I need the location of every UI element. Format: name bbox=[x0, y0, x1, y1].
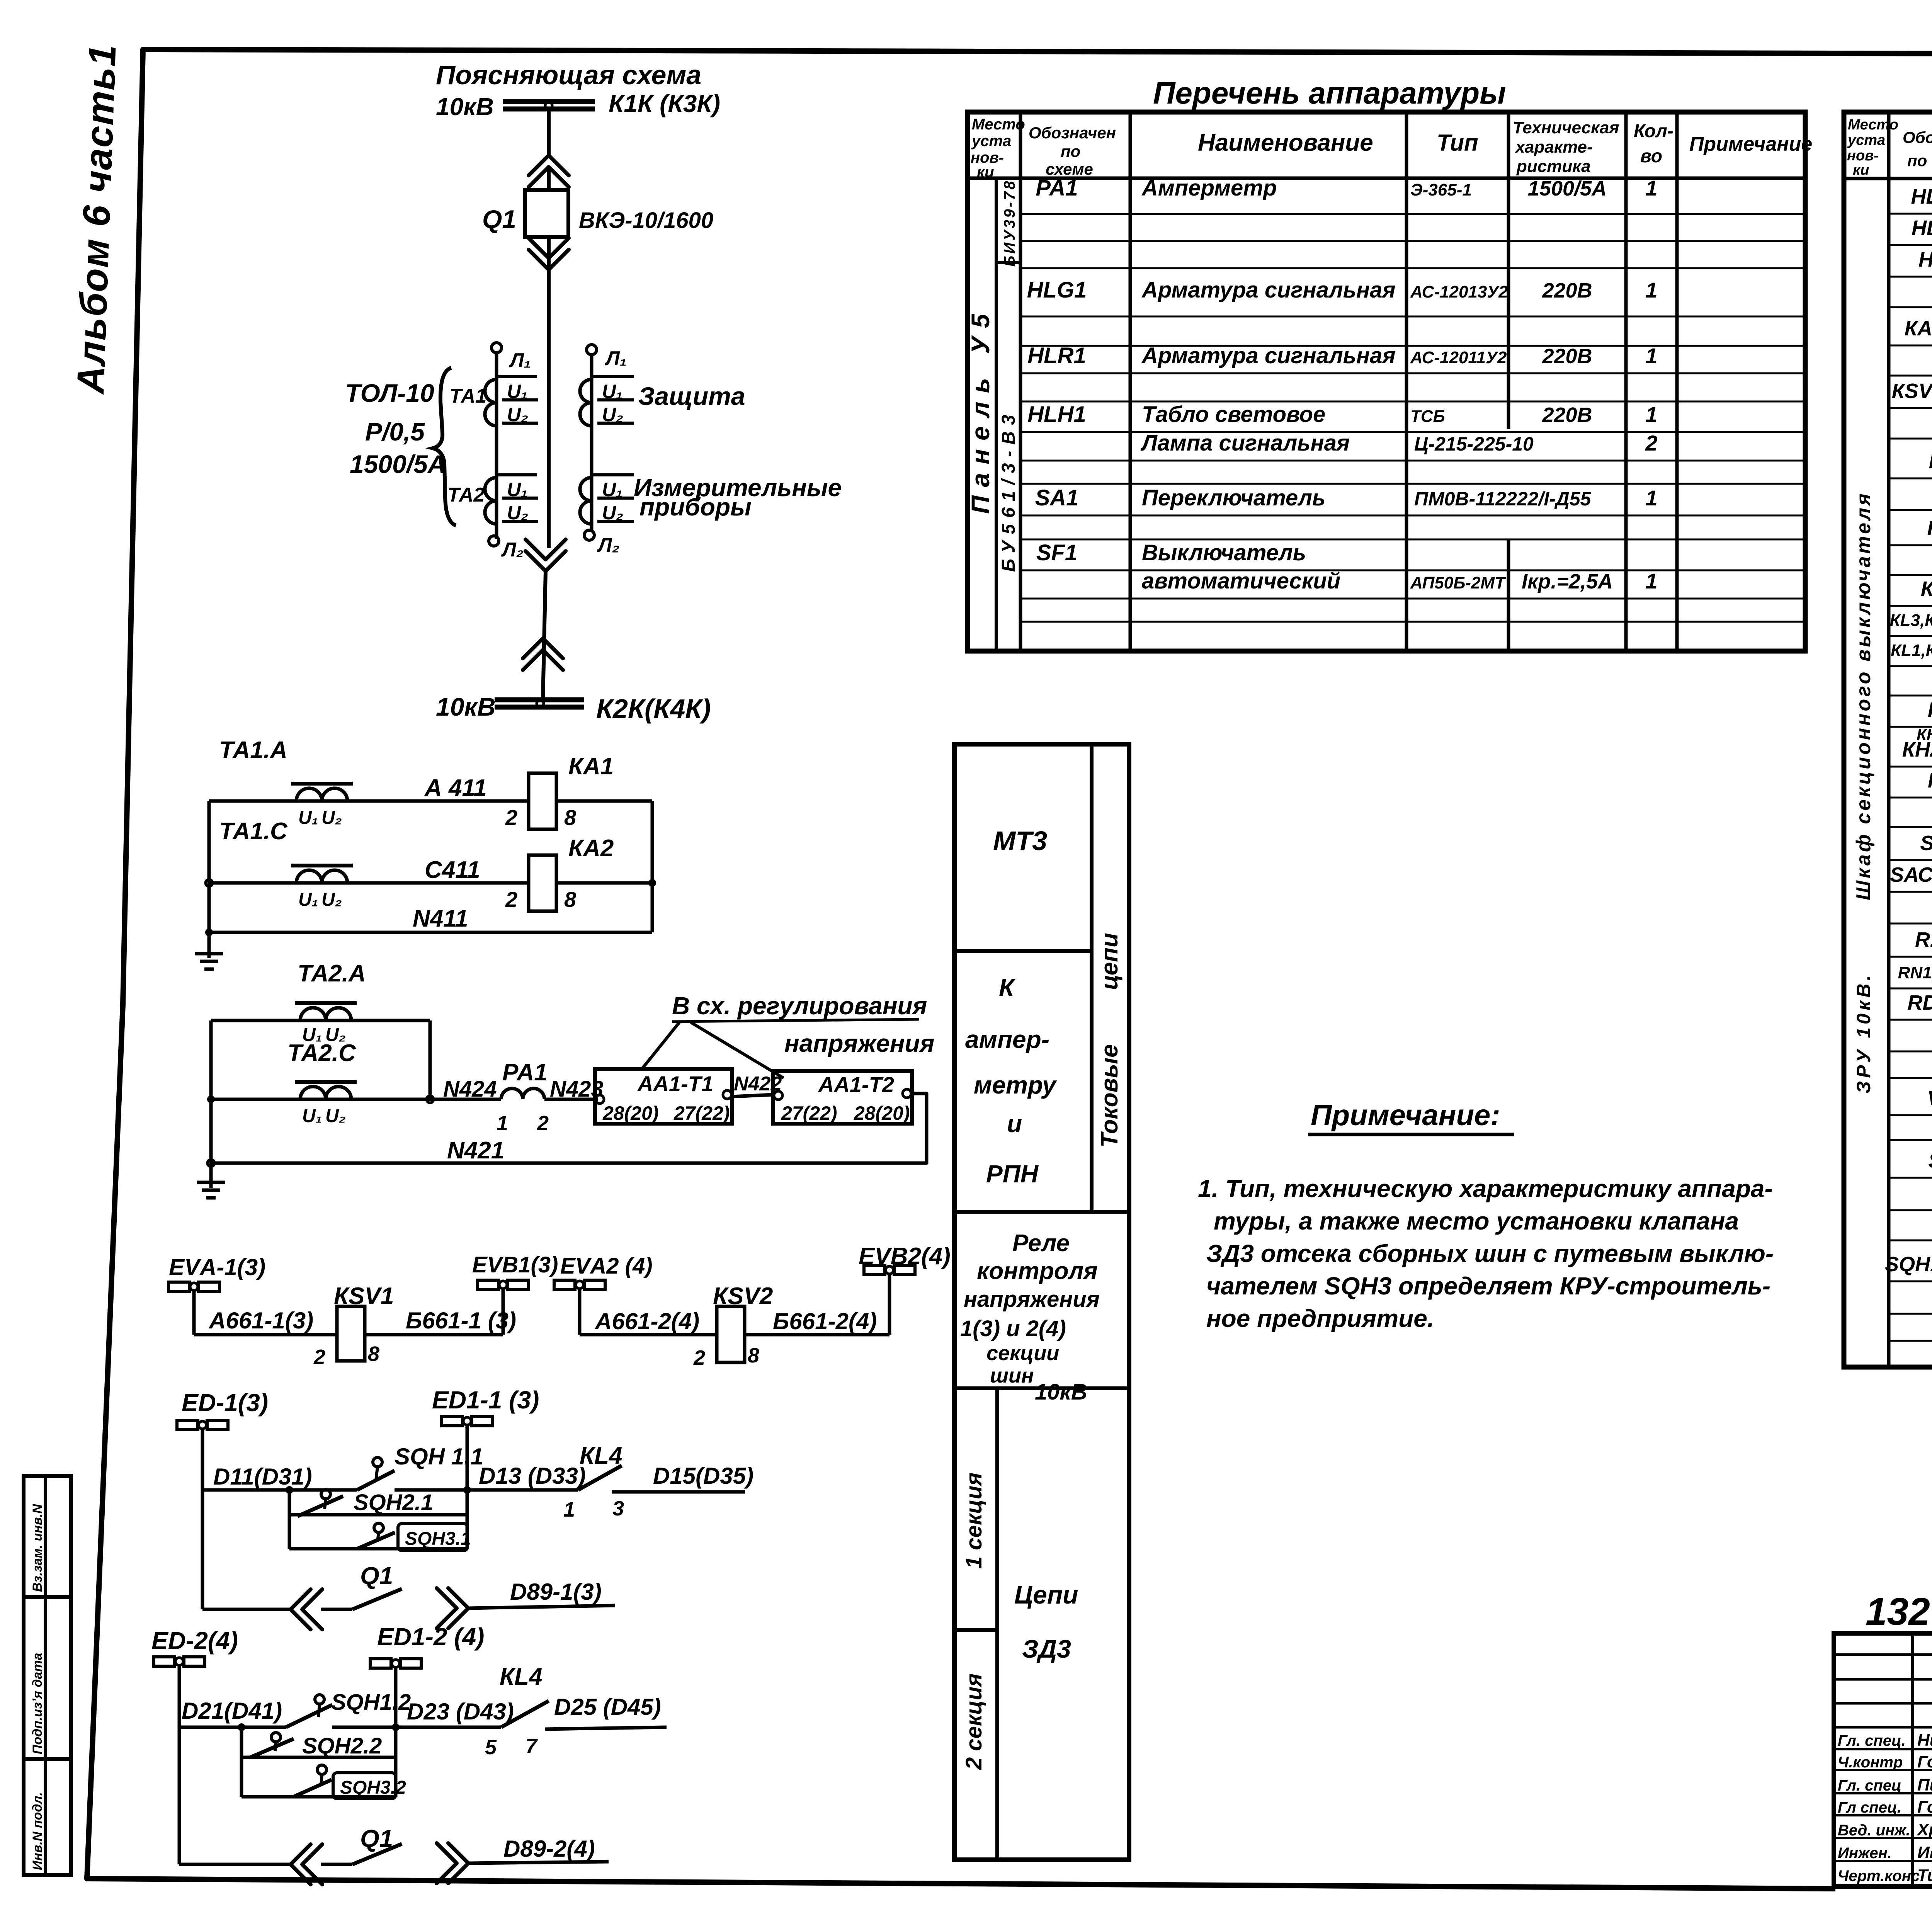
svg-text:АС-12013У2: АС-12013У2 bbox=[1410, 282, 1508, 301]
stamp box Подп. и дата bbox=[24, 1597, 71, 1759]
svg-text:2 секция: 2 секция bbox=[961, 1673, 986, 1770]
svg-text:ТА2: ТА2 bbox=[447, 484, 485, 506]
svg-text:U₂: U₂ bbox=[507, 404, 528, 425]
svg-text:VD1: VD1 bbox=[1927, 1087, 1932, 1110]
labels U1 U2 TA1.A bbox=[298, 808, 342, 828]
svg-text:КL4: КL4 bbox=[580, 1442, 622, 1469]
wire bus1 to Q1 bbox=[547, 110, 551, 155]
svg-text:ки: ки bbox=[1853, 162, 1869, 178]
svg-text:ЕD-2(4): ЕD-2(4) bbox=[151, 1627, 238, 1655]
wire SQH2.2 branch bbox=[241, 1756, 396, 1759]
svg-text:ЕD1-2 (4): ЕD1-2 (4) bbox=[377, 1623, 484, 1651]
svg-text:U₁: U₁ bbox=[298, 808, 318, 828]
svg-text:1 секция: 1 секция bbox=[961, 1473, 986, 1569]
svg-text:Поясняющая схема: Поясняющая схема bbox=[436, 60, 701, 90]
svg-text:А661-2(4): А661-2(4) bbox=[594, 1308, 699, 1334]
svg-text:КSV1;КSV2: КSV1;КSV2 bbox=[1892, 379, 1932, 403]
svg-text:3: 3 bbox=[612, 1497, 624, 1520]
svg-text:Инжен.: Инжен. bbox=[1838, 1845, 1892, 1862]
svg-text:U₁: U₁ bbox=[507, 479, 528, 500]
wire KA2 to right rail bbox=[556, 881, 652, 885]
wire TA2.A drop bbox=[429, 1020, 432, 1099]
svg-text:чателем SQН3 определяет КРУ: чателем SQН3 определяет КРУ-строитель- bbox=[1206, 1272, 1770, 1300]
svg-text:автоматический: автоматический bbox=[1142, 568, 1340, 594]
wire Q1 down through CT zone bbox=[547, 270, 551, 548]
svg-text:по схеме: по схеме bbox=[1907, 151, 1932, 170]
labels U1 U2 TA1.C bbox=[298, 889, 342, 910]
enclosure SQH3.1 bbox=[398, 1524, 468, 1551]
svg-text:220В: 220В bbox=[1542, 345, 1592, 368]
svg-text:КSV1: КSV1 bbox=[334, 1283, 394, 1310]
right parts table grid bbox=[1844, 112, 1932, 1367]
right table col1 rotated labels bbox=[1852, 491, 1875, 1094]
svg-text:Техническая: Техническая bbox=[1513, 118, 1619, 137]
svg-text:ТА1.А: ТА1.А bbox=[219, 737, 287, 764]
svg-text:D25 (D45): D25 (D45) bbox=[554, 1694, 661, 1720]
current transformer TA2 winding on left wire bbox=[485, 475, 538, 524]
svg-text:2: 2 bbox=[1645, 431, 1657, 455]
svg-text:Место: Место bbox=[1848, 117, 1898, 133]
svg-text:и: и bbox=[1007, 1110, 1022, 1138]
relay contact KL4 section1 bbox=[578, 1466, 622, 1490]
svg-text:КL3,КL4,КQС1: КL3,КL4,КQС1 bbox=[1890, 611, 1932, 630]
svg-text:U₂: U₂ bbox=[507, 502, 528, 524]
wire SQH2.1 branch bbox=[289, 1513, 467, 1517]
labels U1 U2 TA2.A bbox=[302, 1025, 346, 1045]
relay coil KSV1 bbox=[337, 1306, 365, 1361]
withdrawable contact chevron up lower bbox=[523, 638, 563, 658]
node N421 left bbox=[207, 1160, 214, 1167]
svg-text:Гл. спец.: Гл. спец. bbox=[1838, 1732, 1906, 1749]
svg-text:SQН1.2: SQН1.2 bbox=[331, 1690, 411, 1715]
note В сх. регулирования напряжения bbox=[672, 992, 934, 1057]
wire D13(D33) bbox=[395, 1488, 578, 1492]
svg-text:28(20): 28(20) bbox=[602, 1102, 659, 1124]
svg-text:Обозначен: Обозначен bbox=[1029, 124, 1116, 142]
svg-text:МТ3: МТ3 bbox=[993, 826, 1047, 856]
svg-text:1500/5А: 1500/5А bbox=[1528, 177, 1607, 200]
svg-text:RN1,RN2,R3: RN1,RN2,R3 bbox=[1898, 963, 1932, 982]
svg-text:U₂: U₂ bbox=[325, 1106, 346, 1126]
svg-text:Q1: Q1 bbox=[482, 205, 516, 233]
svg-text:ЕD1-1 (3): ЕD1-1 (3) bbox=[432, 1386, 539, 1414]
ammeter PA1 coil bbox=[501, 1088, 544, 1099]
limit switch SQH2.1 bbox=[298, 1490, 343, 1516]
svg-text:напряжения: напряжения bbox=[784, 1029, 934, 1057]
left rail TA2 loop bbox=[209, 1020, 213, 1188]
svg-text:Панель У5: Панель У5 bbox=[966, 305, 995, 514]
svg-text:Ц-215-225-10: Ц-215-225-10 bbox=[1414, 433, 1534, 455]
svg-text:D11(D31): D11(D31) bbox=[213, 1464, 312, 1490]
svg-text:Вз.зам. инв.N: Вз.зам. инв.N bbox=[30, 1503, 45, 1592]
wire N411 bbox=[209, 931, 652, 934]
svg-text:Наименование: Наименование bbox=[1198, 129, 1373, 156]
svg-text:КН1: КН1 bbox=[1928, 698, 1932, 721]
svg-text:туры, а также место установки: туры, а также место установки клапана bbox=[1214, 1207, 1739, 1235]
svg-text:ЕD-1(3): ЕD-1(3) bbox=[182, 1389, 268, 1417]
wire N423 bbox=[544, 1098, 598, 1101]
svg-text:приборы: приборы bbox=[639, 493, 752, 521]
terminal Л2 TA1 wire bbox=[489, 536, 499, 546]
wire TA2.C to PA1 bbox=[211, 1098, 501, 1101]
svg-text:27(22): 27(22) bbox=[673, 1102, 730, 1124]
svg-text:во: во bbox=[1640, 146, 1662, 167]
svg-text:U₂: U₂ bbox=[602, 502, 623, 524]
svg-text:N424: N424 bbox=[443, 1077, 497, 1102]
svg-text:АП50Б-2МТ: АП50Б-2МТ bbox=[1410, 573, 1506, 592]
svg-text:цепи: цепи bbox=[1096, 933, 1123, 990]
svg-text:НLН1: НLН1 bbox=[1027, 402, 1086, 427]
svg-text:SАС2,SАС3: SАС2,SАС3 bbox=[1890, 863, 1932, 886]
terminal ED1-2(4) bbox=[370, 1623, 484, 1797]
svg-text:Примечание: Примечание bbox=[1689, 133, 1812, 155]
svg-text:SF2: SF2 bbox=[1928, 1149, 1932, 1172]
svg-text:D15(D35): D15(D35) bbox=[653, 1463, 753, 1489]
node ED1-1 junction bbox=[463, 1486, 471, 1494]
terminal EVB1(3) bbox=[472, 1252, 558, 1335]
svg-text:8: 8 bbox=[564, 887, 577, 912]
svg-text:РА1: РА1 bbox=[502, 1059, 548, 1086]
svg-text:R1, R2: R1, R2 bbox=[1915, 928, 1932, 951]
svg-text:КSV2: КSV2 bbox=[713, 1283, 773, 1310]
node C411 left bbox=[206, 879, 213, 886]
svg-text:SQН3.1: SQН3.1 bbox=[405, 1529, 471, 1549]
svg-text:КВS1: КВS1 bbox=[1921, 577, 1932, 600]
stamp box Инв.N подл. bbox=[24, 1759, 71, 1875]
svg-text:КН2, КН3: КН2, КН3 bbox=[1902, 738, 1932, 761]
svg-text:10кВ: 10кВ bbox=[436, 93, 494, 121]
svg-text:Табло световое: Табло световое bbox=[1142, 402, 1325, 427]
labels U1 U2 TA1 bbox=[507, 381, 528, 425]
pins 28(20) 27(22) AA1-T1 bbox=[602, 1102, 730, 1124]
svg-text:ТА2.А: ТА2.А bbox=[298, 960, 366, 987]
node N424 junction bbox=[427, 1096, 434, 1103]
svg-text:АС-12011У2: АС-12011У2 bbox=[1410, 348, 1507, 367]
svg-text:10кВ: 10кВ bbox=[436, 692, 496, 721]
svg-text:Арматура сигнальная: Арматура сигнальная bbox=[1141, 343, 1396, 368]
svg-text:ВКЭ-10/1600: ВКЭ-10/1600 bbox=[579, 208, 713, 233]
enclosure SQH3.2 bbox=[333, 1773, 396, 1799]
svg-text:ристика: ристика bbox=[1516, 157, 1591, 176]
transducer block AA1-T2 bbox=[773, 1071, 912, 1124]
svg-text:U₁: U₁ bbox=[298, 889, 318, 910]
stamp box Вз.зам.инв.N bbox=[24, 1476, 71, 1597]
svg-text:13276: 13276 bbox=[1866, 1590, 1932, 1633]
svg-text:Никитин: Никитин bbox=[1917, 1731, 1932, 1750]
svg-text:SQН3.2: SQН3.2 bbox=[340, 1777, 406, 1798]
relay contact KL4 section2 bbox=[501, 1701, 549, 1727]
svg-text:ампер-: ампер- bbox=[965, 1026, 1049, 1053]
node TA2.C left bbox=[207, 1095, 215, 1103]
current transformer right wire protection winding bbox=[580, 345, 634, 540]
wire KA1 to right rail bbox=[556, 799, 652, 803]
svg-text:8: 8 bbox=[368, 1342, 379, 1366]
limit switch SQH3.2 bbox=[294, 1765, 332, 1797]
svg-text:U₂: U₂ bbox=[321, 889, 342, 910]
relay coil KSV2 bbox=[717, 1306, 745, 1362]
note title Примечание bbox=[1308, 1099, 1514, 1134]
transducer block AA1-T1 bbox=[595, 1069, 732, 1124]
svg-text:Защита: Защита bbox=[638, 382, 745, 410]
svg-text:уста: уста bbox=[1847, 132, 1885, 148]
terminal EVA-1(3) bbox=[168, 1254, 265, 1335]
svg-text:220В: 220В bbox=[1542, 403, 1592, 427]
terminal ED-2(4) bbox=[151, 1627, 238, 1666]
labels U1 U2 TA2.C bbox=[302, 1106, 346, 1126]
svg-text:РПН: РПН bbox=[986, 1160, 1039, 1188]
pins 27(22) 28(20) AA1-T2 bbox=[781, 1102, 910, 1124]
signature table bbox=[1834, 1633, 1932, 1886]
svg-text:1: 1 bbox=[1645, 486, 1657, 510]
label Измерительные приборы bbox=[634, 474, 842, 521]
limit switch SQH3.1 bbox=[357, 1523, 395, 1549]
wire Б661-1(3) bbox=[365, 1333, 503, 1337]
limit switch SQH1.2 bbox=[286, 1695, 332, 1727]
function band table bbox=[954, 744, 1129, 1860]
svg-text:Б661-2(4): Б661-2(4) bbox=[773, 1308, 877, 1334]
node ED1-2 junction bbox=[392, 1723, 400, 1731]
svg-text:1(3) и 2(4): 1(3) и 2(4) bbox=[960, 1316, 1066, 1341]
relay coil KA1 bbox=[529, 773, 556, 829]
svg-text:Горелик: Горелик bbox=[1917, 1752, 1932, 1771]
svg-text:КL4: КL4 bbox=[500, 1663, 542, 1690]
svg-text:НLR1: НLR1 bbox=[1027, 343, 1086, 368]
current transformer TA2.A bbox=[292, 1003, 361, 1020]
svg-text:Иванова: Иванова bbox=[1917, 1843, 1932, 1862]
svg-text:С411: С411 bbox=[425, 857, 480, 883]
note paragraph bbox=[1198, 1175, 1774, 1332]
svg-text:SQН 1.1: SQН 1.1 bbox=[395, 1444, 483, 1469]
band label Цепи ЗД3 bbox=[1014, 1580, 1078, 1663]
withdrawable contact chevron down bbox=[529, 250, 569, 270]
current transformer TA1.A bbox=[288, 784, 357, 801]
left table col1 rotated labels bbox=[966, 179, 1019, 572]
svg-text:Переключатель: Переключатель bbox=[1142, 485, 1325, 510]
wire D11(D31) bbox=[202, 1488, 357, 1492]
circuit breaker Q1 bbox=[525, 190, 568, 237]
svg-text:БУ561/3-В3: БУ561/3-В3 bbox=[998, 408, 1019, 572]
current transformer TA1 left winding bbox=[485, 343, 538, 539]
svg-text:Горелик: Горелик bbox=[1917, 1798, 1932, 1816]
svg-text:ЕVА2 (4): ЕVА2 (4) bbox=[560, 1253, 653, 1279]
svg-text:ЕVВ1(3): ЕVВ1(3) bbox=[472, 1252, 558, 1277]
ground TA2 loop bbox=[209, 1168, 213, 1182]
svg-text:D23 (D43): D23 (D43) bbox=[407, 1699, 514, 1725]
svg-text:Примечание:: Примечание: bbox=[1311, 1099, 1500, 1132]
svg-text:КL1,КL2,КQТ1: КL1,КL2,КQТ1 bbox=[1891, 641, 1932, 660]
svg-text:КА1;КА2: КА1;КА2 bbox=[1905, 317, 1932, 340]
svg-text:Л₂: Л₂ bbox=[501, 539, 524, 561]
svg-text:Реле: Реле bbox=[1012, 1230, 1070, 1257]
node branch section1 bbox=[286, 1486, 293, 1494]
band label Реле контроля напряжения 1(3) и 2(4) секции шин 10кВ bbox=[960, 1230, 1100, 1405]
svg-text:шин: шин bbox=[990, 1364, 1034, 1387]
current transformer TA2.C bbox=[292, 1082, 361, 1099]
svg-text:Цепи: Цепи bbox=[1014, 1580, 1078, 1609]
svg-text:Арматура сигнальная: Арматура сигнальная bbox=[1141, 277, 1396, 303]
svg-text:НLG1: НLG1 bbox=[1027, 277, 1087, 303]
svg-text:1: 1 bbox=[497, 1112, 508, 1135]
wire D15(D35) bbox=[612, 1490, 745, 1494]
svg-text:SQН1÷SQН3: SQН1÷SQН3 bbox=[1885, 1253, 1932, 1276]
band label К амперметру и РПН bbox=[965, 974, 1057, 1188]
wire TA2.A top bbox=[211, 1019, 430, 1022]
wire N422 bbox=[732, 1095, 773, 1097]
inventory label 13276тм-т6гI bbox=[1866, 1590, 1932, 1634]
svg-text:ки: ки bbox=[977, 163, 994, 180]
svg-text:1. Тип, техническую характерис: 1. Тип, техническую характеристику аппар… bbox=[1198, 1175, 1773, 1202]
svg-text:2: 2 bbox=[505, 887, 517, 912]
wire D23(D43) bbox=[332, 1726, 501, 1729]
svg-text:ЕVА-1(3): ЕVА-1(3) bbox=[169, 1254, 265, 1280]
brace CT group bbox=[433, 368, 456, 526]
svg-text:БИУ39-78: БИУ39-78 bbox=[1001, 179, 1018, 267]
branch rail section2 bbox=[240, 1727, 243, 1797]
svg-text:10кВ: 10кВ bbox=[1035, 1379, 1087, 1405]
terminal ED-1(3) bbox=[177, 1389, 268, 1430]
svg-text:Гл. спец: Гл. спец bbox=[1838, 1777, 1901, 1794]
svg-text:2: 2 bbox=[505, 805, 517, 830]
svg-text:U₂: U₂ bbox=[602, 404, 623, 425]
svg-text:Q1: Q1 bbox=[360, 1562, 393, 1590]
left table headers bbox=[971, 116, 1812, 180]
svg-text:U₂: U₂ bbox=[321, 808, 342, 828]
margin note Альбом 6 часть 1 bbox=[69, 43, 124, 396]
svg-text:Черт.конс: Черт.конс bbox=[1838, 1867, 1920, 1884]
svg-text:1: 1 bbox=[563, 1498, 575, 1521]
right table row KH2 KH3 KHD1 bbox=[1902, 725, 1932, 762]
leader line to AA1-T1 bbox=[641, 1022, 679, 1070]
limit switch SQH1.1 bbox=[357, 1458, 395, 1490]
svg-text:D21(D41): D21(D41) bbox=[182, 1698, 282, 1724]
svg-text:U₁: U₁ bbox=[602, 381, 623, 402]
svg-text:нов-: нов- bbox=[1847, 148, 1879, 164]
svg-text:1500/5А: 1500/5А bbox=[350, 450, 446, 478]
svg-text:А 411: А 411 bbox=[424, 775, 487, 801]
svg-text:2: 2 bbox=[537, 1112, 549, 1135]
svg-text:ЗРУ 10кВ.: ЗРУ 10кВ. bbox=[1853, 972, 1874, 1094]
svg-text:D13 (D33): D13 (D33) bbox=[479, 1463, 586, 1489]
svg-text:Пшцсовский: Пшцсовский bbox=[1917, 1776, 1932, 1794]
svg-text:НLG1.1: НLG1.1 bbox=[1911, 185, 1932, 208]
right rail KA loop bbox=[651, 801, 654, 932]
svg-text:Б661-1 (3): Б661-1 (3) bbox=[406, 1308, 516, 1333]
svg-text:РА1: РА1 bbox=[1036, 175, 1078, 201]
svg-text:К2К(К4К): К2К(К4К) bbox=[596, 694, 711, 724]
ground KA loop bbox=[207, 939, 211, 954]
left parts table grid bbox=[968, 112, 1805, 651]
svg-text:Э-365-1: Э-365-1 bbox=[1410, 180, 1472, 199]
svg-text:2: 2 bbox=[313, 1345, 325, 1369]
node N411 left bbox=[205, 929, 213, 936]
svg-text:Место: Место bbox=[972, 116, 1025, 133]
svg-text:2: 2 bbox=[693, 1346, 705, 1369]
current transformer TA1.C bbox=[288, 866, 357, 883]
svg-text:секции: секции bbox=[986, 1342, 1059, 1365]
svg-text:ТА1.С: ТА1.С bbox=[219, 818, 288, 845]
svg-text:Шкаф секционного выключателя: Шкаф секционного выключателя bbox=[1852, 491, 1875, 900]
wire D25(D45) bbox=[545, 1727, 667, 1729]
svg-text:27(22): 27(22) bbox=[781, 1102, 837, 1124]
svg-text:Л₂: Л₂ bbox=[597, 534, 620, 556]
svg-text:ТА2.С: ТА2.С bbox=[287, 1040, 356, 1066]
breaker contact Q1 section1 bbox=[202, 1588, 615, 1629]
svg-text:НLW1: НLW1 bbox=[1918, 248, 1932, 271]
svg-text:1: 1 bbox=[1645, 344, 1657, 368]
svg-text:Тимофеева: Тимофеева bbox=[1917, 1866, 1932, 1885]
wire AA1-T2 right down bbox=[211, 1094, 927, 1163]
svg-text:U₁: U₁ bbox=[507, 381, 528, 402]
svg-text:1: 1 bbox=[1645, 278, 1657, 302]
svg-text:К: К bbox=[999, 974, 1015, 1002]
svg-text:SQН2.2: SQН2.2 bbox=[302, 1733, 382, 1759]
left rail section2 bbox=[178, 1666, 181, 1864]
wire Q1 to chevron bbox=[547, 237, 551, 270]
wire chevron to Q1 bbox=[547, 167, 551, 190]
svg-text:Обозначен.: Обозначен. bbox=[1903, 128, 1932, 146]
svg-text:Л₁: Л₁ bbox=[509, 349, 531, 372]
wire C411 bbox=[209, 881, 529, 885]
svg-text:ТОЛ-10: ТОЛ-10 bbox=[345, 379, 434, 407]
svg-text:Инв.N подл.: Инв.N подл. bbox=[30, 1792, 45, 1870]
svg-text:Перечень аппаратуры: Перечень аппаратуры bbox=[1153, 76, 1506, 110]
svg-text:напряжения: напряжения bbox=[964, 1287, 1100, 1312]
svg-text:Лампа сигнальная: Лампа сигнальная bbox=[1140, 430, 1350, 456]
svg-text:характе-: характе- bbox=[1515, 138, 1593, 156]
node branch section2 bbox=[238, 1723, 245, 1731]
svg-text:В сх. регулирования: В сх. регулирования bbox=[672, 992, 927, 1020]
svg-text:RD1, R4: RD1, R4 bbox=[1907, 991, 1932, 1014]
right table headers bbox=[1847, 117, 1932, 178]
svg-text:контроля: контроля bbox=[977, 1258, 1098, 1284]
svg-text:1: 1 bbox=[1645, 569, 1657, 593]
relay coil KA2 bbox=[529, 855, 556, 911]
svg-text:Гл спец.: Гл спец. bbox=[1838, 1799, 1901, 1816]
svg-text:Подп.изʼя дата: Подп.изʼя дата bbox=[30, 1653, 45, 1754]
svg-text:8: 8 bbox=[748, 1344, 759, 1367]
svg-text:U₁: U₁ bbox=[302, 1106, 322, 1126]
terminal ED1-1(3) bbox=[432, 1386, 539, 1549]
wire A661-2(4) bbox=[580, 1333, 717, 1337]
svg-text:К1К (К3К): К1К (К3К) bbox=[609, 90, 720, 117]
svg-text:Л₁: Л₁ bbox=[604, 347, 627, 370]
svg-text:ЗД3 отсека сборных шин с пу: ЗД3 отсека сборных шин с путевым выклю- bbox=[1206, 1240, 1774, 1267]
svg-text:КН4: КН4 bbox=[1928, 769, 1932, 792]
svg-text:D89-2(4): D89-2(4) bbox=[503, 1836, 595, 1862]
labels U1 U2 right top bbox=[602, 381, 623, 524]
wire A411 bbox=[209, 799, 529, 803]
svg-text:U₁: U₁ bbox=[602, 479, 623, 500]
value label ТОЛ-10 Р/0,5 1500/5А bbox=[345, 379, 446, 478]
breaker contact Q1 section2 bbox=[179, 1843, 609, 1884]
svg-text:КА1: КА1 bbox=[568, 753, 614, 780]
svg-text:метру: метру bbox=[974, 1071, 1057, 1099]
bus K2K (K4K) 10kV bbox=[495, 700, 584, 707]
svg-text:220В: 220В bbox=[1542, 279, 1592, 302]
svg-text:КА2: КА2 bbox=[568, 835, 614, 862]
bus K1K (K3K) 10kV bbox=[503, 102, 595, 109]
svg-text:АА1-Т1: АА1-Т1 bbox=[637, 1071, 713, 1096]
svg-text:Iкр.=2,5А: Iкр.=2,5А bbox=[1522, 570, 1613, 593]
wire D21(D41) bbox=[179, 1726, 286, 1729]
terminal EVB2(4) bbox=[859, 1243, 951, 1335]
svg-text:1: 1 bbox=[1645, 402, 1657, 427]
svg-text:5: 5 bbox=[485, 1736, 497, 1759]
terminal EVA2(4) bbox=[554, 1253, 653, 1335]
svg-text:КТ1: КТ1 bbox=[1929, 450, 1932, 473]
svg-text:АА1-Т2: АА1-Т2 bbox=[818, 1072, 894, 1097]
wire to bus2 bbox=[543, 571, 546, 699]
